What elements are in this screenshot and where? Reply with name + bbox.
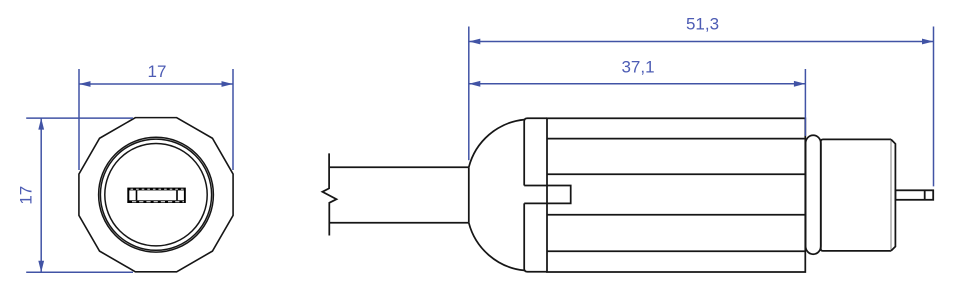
latch slot (524, 186, 571, 204)
dim 51,3 extension right (933, 27, 935, 187)
dome bottom arc (469, 223, 524, 271)
svg-text:17: 17 (17, 186, 36, 205)
body profile line 3 (547, 214, 805, 216)
dimensions (26, 27, 933, 273)
dim 17 vertical line (40, 118, 42, 272)
USB-A receptacle front (127, 188, 186, 203)
arrow 37,1 left (469, 81, 481, 87)
rear block edge line (890, 139, 892, 251)
body profile line 4 (547, 250, 805, 252)
body rectangle (547, 118, 805, 272)
dim 51,3 line (469, 41, 934, 43)
cable bottom line (329, 222, 469, 224)
front view inner circle (105, 144, 207, 246)
arrow 51,3 right (922, 39, 934, 45)
rear block chamfered cap (891, 139, 895, 251)
dim 17 horizontal line (79, 83, 233, 85)
collar strip (524, 118, 547, 271)
pin divider (924, 190, 926, 200)
arrow 17v top (38, 118, 44, 130)
dim 17 vertical extension top (26, 117, 133, 119)
dim 17 vertical extension bottom (26, 271, 133, 273)
arrow 17v bottom (38, 261, 44, 273)
arrow 17h left (79, 81, 91, 87)
pin (895, 190, 933, 200)
o-ring (806, 135, 821, 254)
svg-text:17: 17 (148, 62, 167, 81)
dim 17 horizontal extension right (232, 69, 234, 170)
cable top line (329, 166, 469, 168)
front view hex nut dodecagon (79, 118, 233, 272)
dim 37,1 line (469, 83, 806, 85)
arrow 51,3 left (469, 39, 481, 45)
arrow 37,1 right (794, 81, 806, 87)
cable break line with zigzag (322, 153, 336, 235)
front view outer circle (99, 137, 214, 252)
dim 51,3 extension left (468, 27, 470, 161)
body profile line 2 (547, 173, 805, 175)
usb divider right (176, 190, 178, 200)
arrow 17h right (222, 81, 234, 87)
rear block (821, 139, 891, 251)
usb divider left (136, 190, 138, 200)
dome top arc (469, 120, 524, 168)
usb dashed bottom band (132, 201, 184, 203)
dim 37,1 extension right (804, 69, 806, 136)
svg-text:37,1: 37,1 (621, 57, 654, 76)
svg-text:51,3: 51,3 (686, 15, 719, 34)
cable end vertical (468, 167, 470, 223)
usb dashed top band (131, 188, 185, 190)
front view ring circle (100, 139, 211, 250)
dim 17 horizontal extension left (78, 69, 80, 170)
body profile line 1 (547, 138, 805, 140)
